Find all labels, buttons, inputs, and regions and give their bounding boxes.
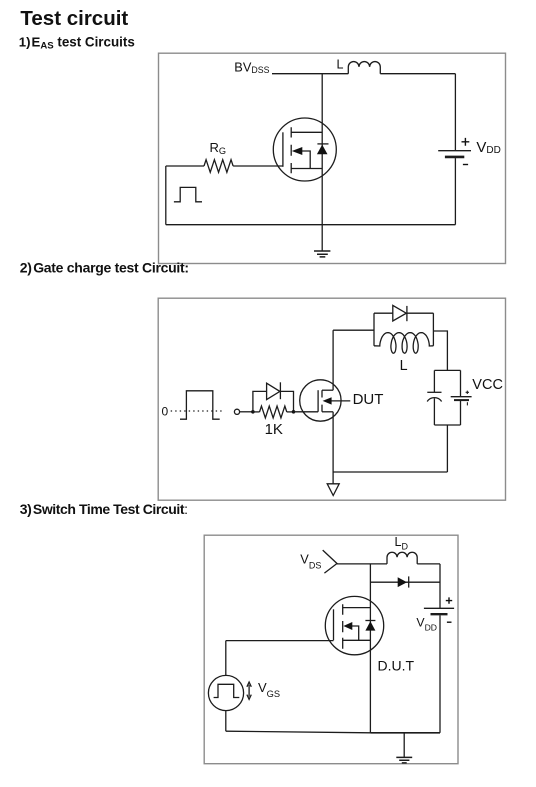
source VGS circle xyxy=(208,675,243,710)
mosfet Q3 gate bar xyxy=(333,609,335,640)
svg-text:BVDSS: BVDSS xyxy=(234,60,269,75)
pulse waveform symbol circuit 2 xyxy=(180,391,220,419)
wire resistor to junction right xyxy=(287,411,294,413)
wire terminal to junction xyxy=(240,411,253,413)
label RG xyxy=(210,140,227,156)
label BVDSS xyxy=(234,60,269,75)
diode D1 (hollow) xyxy=(267,382,281,399)
resistor RG xyxy=(204,160,233,173)
svg-text:1K: 1K xyxy=(265,421,283,438)
diode D3 (filled) xyxy=(398,576,409,587)
svg-text:Test circuit: Test circuit xyxy=(20,7,128,30)
diode D2 feed xyxy=(374,312,393,314)
svg-text:2)Gate charge test Circuit:: 2)Gate charge test Circuit: xyxy=(20,259,189,275)
wire right rail upper (to battery +) xyxy=(454,74,456,151)
pulse waveform in VGS source xyxy=(214,684,240,697)
mosfet Q3 body arrow xyxy=(343,622,358,640)
label D.U.T xyxy=(378,657,415,673)
wire inductor to right rail xyxy=(380,73,455,75)
svg-text:3)Switch Time Test Circuit:: 3)Switch Time Test Circuit: xyxy=(20,501,188,517)
wire bottom rail circuit 3 xyxy=(370,732,440,734)
capacitor C2 plates xyxy=(451,397,472,400)
wire bottom return (sloped) xyxy=(226,731,371,733)
inductor LD xyxy=(387,552,417,564)
ground triangle circuit 2 (hollow) xyxy=(327,484,339,496)
wire right rail to cap feed xyxy=(433,331,447,370)
wire gate lead left segment xyxy=(166,165,204,167)
wire bottom rail circuit 1 xyxy=(166,224,456,226)
svg-text:D.U.T: D.U.T xyxy=(378,657,415,673)
label + battery 3 xyxy=(446,597,452,603)
wire bottom rail circuit 2 xyxy=(333,471,447,473)
frame box circuit 3 xyxy=(204,535,458,764)
wire VGS source to bottom rail xyxy=(225,711,227,732)
label - capacitor C2 xyxy=(466,402,468,405)
mosfet Q3 body diode xyxy=(365,621,375,631)
wire VGS source to gate xyxy=(225,641,227,676)
junction dot left xyxy=(251,410,255,414)
svg-text:VGS: VGS xyxy=(258,680,280,699)
wire inductor to right rail xyxy=(417,563,440,565)
inductor L (circuit 1) xyxy=(348,62,380,74)
battery VDD circuit 1 xyxy=(438,151,471,157)
svg-text:L: L xyxy=(400,358,408,374)
wire top rail probe to inductor xyxy=(337,563,387,565)
svg-text:VCC: VCC xyxy=(472,377,503,393)
capacitor block top bar xyxy=(434,369,460,371)
wire drain rail circuit 3 (through mosfet) xyxy=(369,564,371,733)
svg-text:RG: RG xyxy=(210,140,227,156)
L-diode block right rail xyxy=(432,313,434,346)
wire right rail to battery xyxy=(439,564,441,608)
diode D2 to right rail xyxy=(407,312,434,314)
diode D1 branch left riser xyxy=(253,391,267,411)
mosfet DUT source bar xyxy=(322,411,333,413)
label 0 (input level) xyxy=(162,404,169,418)
pulse waveform symbol circuit 1 xyxy=(174,187,202,201)
label VDD circuit 1 xyxy=(476,139,500,156)
svg-text:VDS: VDS xyxy=(300,552,321,571)
label VGS xyxy=(258,680,280,699)
mosfet DUT body arrow lead to label xyxy=(323,397,351,404)
node BVDSS wire (top rail from label to inductor) xyxy=(272,73,348,75)
mosfet Q1 source bar xyxy=(291,168,322,170)
wire gate lead circuit 3 xyxy=(226,640,334,642)
svg-text:L: L xyxy=(337,57,344,71)
wire source vertical circuit 2 xyxy=(332,412,334,472)
L-diode block left rail xyxy=(373,313,375,346)
svg-text:0: 0 xyxy=(162,404,169,418)
dotted zero reference line xyxy=(171,410,223,412)
updown arrow VGS xyxy=(247,682,251,699)
mosfet Q1 body circle xyxy=(273,118,336,181)
wire resistor to gate xyxy=(233,165,283,167)
wire junction to resistor xyxy=(253,411,260,413)
heading 3) Switch Time Test Circuit: xyxy=(20,501,188,517)
wire cap block to bottom rail xyxy=(446,425,448,472)
label VDS xyxy=(300,552,321,571)
ground symbol circuit 1 xyxy=(314,251,330,257)
wire drain vertical circuit 2 xyxy=(332,330,334,390)
title: Test circuit xyxy=(20,7,128,30)
resistor 1K xyxy=(260,406,287,418)
label VCC xyxy=(472,377,503,393)
label L circuit 2 xyxy=(400,358,408,374)
capacitor C2 (electrolytic) right rail xyxy=(460,370,462,425)
label + battery 1 xyxy=(462,138,470,146)
mosfet DUT gate bar xyxy=(317,390,319,412)
mosfet DUT body circle xyxy=(300,380,341,421)
capacitor block bottom bar xyxy=(434,424,460,426)
mosfet Q1 gate bar xyxy=(282,132,284,167)
wire drain vertical (BVDSS node to ground) xyxy=(321,74,323,251)
input terminal (open circle) xyxy=(234,409,239,414)
ground stub circuit 3 xyxy=(403,733,405,758)
mosfet Q3 channel dashes xyxy=(342,604,344,649)
label DUT xyxy=(353,391,384,408)
label 1K xyxy=(265,421,283,438)
diode D1 branch right riser xyxy=(280,391,293,411)
junction dot right xyxy=(292,410,296,414)
wire drain node to L-diode block xyxy=(333,329,374,331)
label - battery 3 xyxy=(447,621,452,623)
label - battery 1 xyxy=(463,164,468,166)
mosfet Q1 body arrow xyxy=(292,147,310,169)
mosfet Q1 channel dashes xyxy=(290,127,292,173)
frame box circuit 1 xyxy=(159,53,506,263)
svg-text:VDD: VDD xyxy=(476,139,500,156)
mosfet Q3 body circle xyxy=(325,596,383,654)
svg-text:1)EAS test Circuits: 1)EAS test Circuits xyxy=(19,34,135,51)
wire right rail battery to bottom xyxy=(439,615,441,732)
svg-text:DUT: DUT xyxy=(353,391,384,408)
heading 2) Gate charge test Circuit: xyxy=(20,259,189,275)
capacitor C1 (ceramic) left rail xyxy=(433,370,435,425)
mosfet Q3 drain bar xyxy=(343,607,371,609)
battery VDD circuit 3 xyxy=(424,608,454,614)
heading 1) EAS test Circuits xyxy=(19,34,135,51)
mosfet DUT drain bar xyxy=(322,389,333,391)
svg-text:LD: LD xyxy=(395,535,409,552)
inductor L circuit 2 (loop coil) xyxy=(374,333,433,354)
capacitor C1 plates xyxy=(427,392,441,401)
label + capacitor C2 xyxy=(466,391,469,394)
probe VDS symbol xyxy=(323,550,337,573)
diode D3 line xyxy=(370,581,440,583)
label VDD circuit 3 xyxy=(416,615,437,632)
wire left rail (pulse source branch) xyxy=(165,166,167,225)
ground stub circuit 2 xyxy=(332,472,334,484)
mosfet DUT channel bar xyxy=(321,390,323,412)
wire right rail lower (battery - to bottom rail) xyxy=(454,158,456,225)
mosfet Q1 drain bar xyxy=(291,131,322,133)
ground symbol circuit 3 xyxy=(396,757,412,763)
label LD xyxy=(395,535,409,552)
wire gate lead circuit 2 xyxy=(294,411,319,413)
label L circuit 1 xyxy=(337,57,344,71)
mosfet Q3 source bar xyxy=(343,639,371,641)
frame box circuit 2 xyxy=(158,298,505,500)
mosfet Q1 body diode xyxy=(317,144,329,154)
svg-text:VDD: VDD xyxy=(416,615,437,632)
diode D2 (hollow) xyxy=(393,305,407,321)
